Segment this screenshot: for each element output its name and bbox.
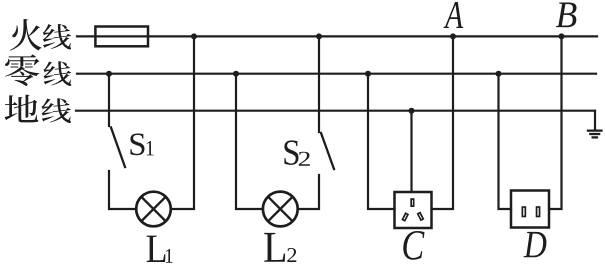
label D	[524, 232, 547, 257]
wire: earth rail drop to ground symbol	[594, 111, 596, 130]
ground symbol	[587, 131, 603, 138]
lamp L2	[263, 192, 298, 227]
junction on earth at C branch	[409, 108, 415, 114]
junction on neutral at L2 branch	[233, 71, 239, 77]
junction on neutral at D branch	[496, 71, 502, 77]
wire: live rail down to lamp L1 right	[171, 36, 194, 209]
label C	[403, 231, 424, 260]
wire: earth down to socket C top	[410, 111, 412, 192]
wire: switch S2 bottom to lamp L2 right	[298, 175, 319, 209]
socket C	[395, 192, 432, 228]
label L2	[264, 233, 285, 262]
node A junction	[450, 33, 456, 39]
junction on neutral at S1 branch	[106, 71, 112, 77]
wire: switch S1 bottom to lamp L1 left	[109, 171, 136, 209]
wire: neutral down to socket C left	[368, 74, 395, 209]
junction on neutral at C branch	[365, 71, 371, 77]
fuse on live rail	[95, 27, 148, 47]
node label B	[556, 2, 576, 27]
label 地线 (earth wire)	[5, 95, 39, 123]
junction on live at S2 branch	[316, 33, 322, 39]
wire: node A down to socket C right	[432, 36, 454, 209]
label 零线 (neutral wire)	[5, 54, 39, 86]
wire: earth rail	[76, 110, 595, 112]
junction on live at L1 branch	[191, 33, 197, 39]
switch S2 blade	[321, 133, 334, 169]
wire: neutral down to socket D left	[499, 74, 512, 209]
label S1	[130, 133, 144, 155]
wire: neutral down to lamp L2 left	[236, 74, 263, 209]
switch S1 blade	[111, 128, 125, 168]
wire: neutral rail	[77, 73, 596, 75]
wire: live rail	[77, 35, 597, 37]
lamp L1	[136, 192, 171, 227]
node label A	[443, 2, 463, 28]
node B junction	[559, 33, 565, 39]
socket D	[511, 191, 549, 228]
wire: S1 branch from neutral down to switch	[108, 74, 110, 126]
label 火线 (live wire)	[10, 19, 42, 51]
wire: live rail down to switch S2	[318, 36, 320, 132]
label S2	[284, 140, 298, 165]
label L1	[147, 236, 166, 262]
wire: node B down to socket D right	[549, 36, 562, 209]
